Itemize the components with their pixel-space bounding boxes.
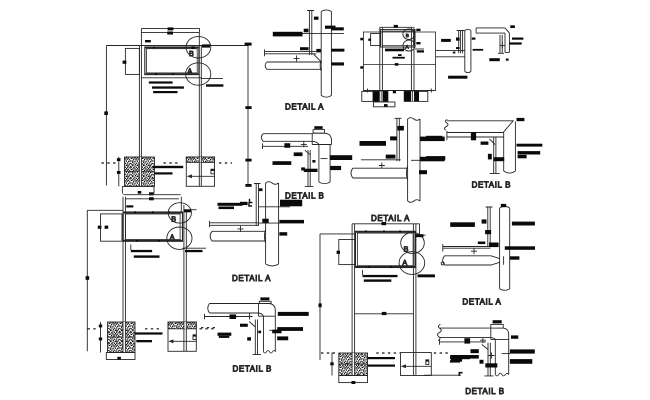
svg-text:B: B bbox=[171, 215, 176, 224]
svg-text:A: A bbox=[187, 66, 192, 75]
svg-text:DETAIL B: DETAIL B bbox=[285, 191, 324, 200]
svg-text:B: B bbox=[189, 49, 194, 58]
svg-text:DETAIL A: DETAIL A bbox=[371, 214, 410, 223]
svg-text:A: A bbox=[170, 232, 175, 241]
svg-text:B: B bbox=[406, 33, 409, 38]
svg-text:DETAIL B: DETAIL B bbox=[233, 365, 272, 374]
svg-text:DETAIL A: DETAIL A bbox=[232, 274, 271, 283]
svg-text:A: A bbox=[402, 258, 407, 267]
svg-text:B: B bbox=[404, 245, 409, 254]
svg-text:DETAIL A: DETAIL A bbox=[285, 103, 324, 112]
svg-text:DETAIL B: DETAIL B bbox=[465, 387, 504, 396]
svg-text:DETAIL A: DETAIL A bbox=[462, 297, 501, 306]
svg-text:DETAIL B: DETAIL B bbox=[472, 180, 511, 189]
